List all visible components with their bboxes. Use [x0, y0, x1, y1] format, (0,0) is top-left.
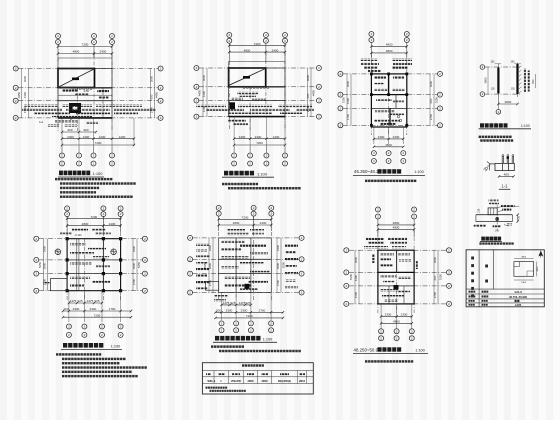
plan6 left ext lines+dims: [349, 250, 359, 304]
detail3 title: [481, 237, 501, 241]
plan1 stair room thick walls: [58, 69, 95, 88]
svg-text:1:100: 1:100: [111, 345, 121, 349]
svg-text:3600: 3600: [306, 74, 310, 81]
plan3 inner walls: [371, 74, 406, 125]
svg-text:7200: 7200: [95, 141, 102, 145]
plan2 left ext lines+dims: [198, 68, 208, 117]
svg-text:2400: 2400: [43, 245, 47, 252]
detail3 top labels: [489, 200, 500, 205]
plan1 inner wall row C: [58, 88, 112, 118]
plan3 axis row 3 left bubble: [338, 106, 343, 111]
plan5 left ext lines+dims: [203, 238, 213, 293]
svg-text:1800: 1800: [132, 262, 136, 269]
plan4 left ext lines+dims: [38, 239, 48, 291]
plan1 axis row 2 right bubble: [158, 85, 163, 90]
plan3 axis row 2 right bubble: [438, 92, 443, 97]
svg-text:600: 600: [150, 94, 154, 99]
plan1 note line 4: [60, 191, 96, 193]
svg-text:4450: 4450: [198, 89, 202, 96]
svg-text:1300: 1300: [23, 91, 27, 98]
plan6 axis row 2 right bubble: [447, 270, 452, 275]
plan2 inner wall row C: [229, 100, 285, 102]
table5 header cells: [206, 373, 305, 375]
svg-text:7200: 7200: [82, 43, 89, 47]
plan1 axis row 4 left bubble: [13, 115, 18, 120]
plan2 beam labels: [231, 98, 266, 101]
plan4 top dim 7200: [66, 215, 122, 220]
detail1 axis bubble 7: [480, 65, 485, 70]
plan1 beam labels mid: [62, 89, 109, 96]
plan4 axis row 3 right bubble: [142, 271, 147, 276]
plan4 axis row 3 left bubble: [34, 271, 39, 276]
detail3 tiny 240: [0, 0, 1, 1]
plan6 axis row 3 line: [349, 285, 447, 287]
plan1 grid verticals: [58, 54, 112, 132]
plan4 inner walls: [67, 239, 121, 291]
svg-text:2400: 2400: [276, 244, 280, 251]
svg-text:2400: 2400: [83, 135, 90, 139]
plan5 axis row 4 line: [193, 292, 300, 294]
svg-text:14/22: 14/22: [515, 303, 522, 307]
svg-text:1475: 1475: [87, 299, 94, 303]
svg-text:4450: 4450: [312, 89, 316, 96]
plan2 axis row 2 right bubble: [316, 84, 321, 89]
plan6 mid block: [394, 285, 399, 290]
plan3 axis row 3 line: [343, 107, 438, 109]
table5 header text: [242, 364, 264, 366]
plan3 left ext lines+dims: [342, 74, 352, 125]
svg-text:1200: 1200: [273, 135, 280, 139]
plan4 bottom axis bubble col 3: [100, 324, 105, 337]
plan1 bottom axis bubble col 4: [110, 146, 115, 166]
svg-text:2400: 2400: [255, 135, 262, 139]
svg-text:2700: 2700: [354, 291, 358, 298]
plan1 stair diagonal: [59, 69, 94, 87]
plan1 extension drops: [62, 118, 134, 146]
plan1 top axis bubble col 1: [56, 34, 61, 59]
plan6 axis row 4 left bubble: [344, 301, 349, 306]
plan4 axis row 4 line: [39, 290, 142, 292]
detail1 left vert dim: [484, 67, 488, 94]
plan5 dim row total: [214, 314, 284, 319]
titleblock key plan dims: [514, 257, 539, 284]
detail3 right leaders: [498, 205, 520, 212]
plan5 grid verticals: [219, 216, 272, 300]
plan3 right ext lines+dims: [429, 74, 439, 125]
plan2 axis row 1 line: [199, 67, 317, 69]
titleblock vertical divider 2: [493, 250, 495, 289]
plan5 notch lower-left: [206, 282, 219, 291]
plan2 axis row 3 right bubble: [316, 98, 321, 103]
plan3 dim row total 4800: [373, 143, 405, 148]
plan1 axis row 3 left bubble: [13, 98, 18, 103]
detail3 note: [479, 242, 513, 244]
svg-text:400: 400: [518, 216, 521, 221]
detail1 wall right hatch: [519, 66, 521, 93]
svg-text:150: 150: [510, 60, 515, 63]
plan3 axis row 4 line: [343, 124, 438, 126]
table5 data row: [208, 380, 306, 383]
detail1 mid 150 labels: [491, 89, 516, 91]
svg-text:3600: 3600: [354, 256, 358, 263]
svg-text:1:100: 1:100: [521, 124, 530, 128]
plan4 extension drops: [69, 291, 121, 322]
titleblock outer frame: [466, 250, 544, 307]
svg-text:5150: 5150: [349, 273, 353, 280]
plan2 plan outline: [229, 68, 285, 117]
plan2 bottom axis bubble col 3: [264, 146, 269, 166]
svg-text:48.250~50.9: 48.250~50.9: [354, 347, 379, 352]
plan5 bottom axis bubble col 3: [248, 321, 253, 333]
svg-text:2400: 2400: [393, 135, 400, 139]
plan5 axis row 4 right bubble: [299, 290, 304, 295]
plan3 grid verticals: [371, 53, 406, 135]
svg-text:4800: 4800: [385, 143, 392, 147]
svg-text:1200: 1200: [119, 135, 126, 139]
plan1 title: [59, 171, 103, 177]
svg-text:7200: 7200: [94, 313, 101, 317]
plan1 dim row 2400/2400/1200/1200: [61, 135, 135, 140]
plan2 stair diagonal: [229, 69, 265, 86]
svg-text:A-A: A-A: [39, 120, 44, 124]
plan6 top dim 4800 a: [377, 221, 416, 226]
plan1 top dim line 4800/2400: [57, 50, 113, 57]
svg-text:4450: 4450: [155, 91, 159, 98]
detail1 wall left: [497, 64, 499, 105]
plan4 plan outline: [67, 239, 121, 291]
svg-text:3600: 3600: [23, 75, 27, 82]
svg-text:600: 600: [306, 93, 310, 98]
titleblock key plan sketch: [514, 262, 534, 277]
titleblock row2 cells: [469, 295, 528, 299]
plan3 top dim 4800 b: [370, 49, 408, 54]
plan5 extension drops: [222, 293, 272, 321]
svg-text:2400: 2400: [132, 245, 136, 252]
svg-text:925: 925: [77, 299, 82, 303]
table5 outer frame: [202, 363, 313, 394]
plan1 axis row 4 right bubble: [158, 115, 163, 120]
plan6 axis row 3 left bubble: [344, 283, 349, 288]
section1-1 body: [495, 163, 514, 170]
svg-text:900: 900: [83, 128, 88, 132]
svg-text:4800: 4800: [73, 50, 80, 54]
plan2 dense band: [196, 105, 314, 114]
plan3 axis row 1 line: [343, 73, 438, 75]
detail3 title underline: [480, 240, 502, 242]
plan5 axis row 2 left bubble: [188, 257, 193, 262]
plan1 top axis bubble col 2: [92, 34, 97, 59]
plan4 right ext lines+dims: [132, 239, 141, 291]
detail1 bottom dim: [497, 100, 519, 105]
svg-text:5250: 5250: [137, 261, 141, 268]
plan5 axis row 4 left bubble: [188, 290, 193, 295]
plan1 axis row 3 line: [18, 100, 158, 102]
svg-text:1:100: 1:100: [263, 338, 273, 342]
plan6 plan outline: [378, 250, 414, 304]
plan2 embed plates row: [243, 87, 269, 89]
section1-1 label: [499, 184, 510, 190]
plan5 axis row 3 line: [193, 273, 300, 275]
plan5 top axis bubble col 3: [269, 205, 274, 231]
svg-text:900: 900: [67, 128, 72, 132]
plan2 dim row total: [233, 141, 286, 146]
detail1 title: [480, 123, 530, 128]
svg-text:600: 600: [429, 98, 433, 103]
plan4 dim row total: [62, 313, 132, 318]
plan3 bottom axis bubble col 1: [371, 151, 376, 164]
table5 footnotes: [206, 387, 246, 392]
svg-text:1700: 1700: [346, 113, 350, 120]
svg-text:1:100: 1:100: [415, 348, 425, 352]
titleblock row1 cells: [469, 290, 523, 294]
svg-text:4800: 4800: [233, 221, 240, 225]
plan6 axis row 4 right bubble: [447, 301, 452, 306]
svg-text:1475: 1475: [223, 301, 230, 305]
svg-text:7200: 7200: [256, 141, 263, 145]
plan4 interior labels: [70, 243, 110, 287]
plan2 cooling tower labels: [237, 92, 258, 97]
svg-text:2400: 2400: [67, 135, 74, 139]
svg-text:4800: 4800: [82, 222, 89, 226]
svg-text:3600: 3600: [150, 75, 154, 82]
svg-text:3600: 3600: [429, 80, 433, 87]
svg-text:2400: 2400: [109, 222, 116, 226]
svg-text:7200: 7200: [246, 314, 253, 318]
svg-text:Ø8@200(2): Ø8@200(2): [278, 380, 291, 383]
plan6 axis row 1 right bubble: [447, 248, 452, 253]
plan4 notch lower-left: [44, 279, 68, 291]
plan4 axis row 3 line: [39, 273, 142, 275]
plan2 note line 1: [222, 183, 258, 185]
plan3 beam labels above: [360, 59, 412, 73]
detail3 centerline: [496, 205, 498, 230]
plan2 shaft block: [229, 102, 235, 109]
detail1 axis line bottom: [485, 93, 521, 95]
plan2 inner wall row B: [229, 86, 285, 88]
svg-text:5250: 5250: [282, 261, 286, 268]
plan1 right vertical extension lines+dims: [150, 69, 159, 118]
plan5 bottom axis bubble col 4: [269, 321, 274, 333]
plan2 extension drops: [234, 117, 285, 146]
plan4 small dim row: [68, 299, 104, 304]
svg-text:2300: 2300: [73, 307, 80, 311]
svg-text:4800: 4800: [386, 49, 393, 53]
plan6 top axis bubble col 2: [412, 207, 417, 237]
detail1 note 2: [480, 139, 513, 141]
svg-text:600: 600: [433, 275, 437, 280]
detail1 wall right: [516, 63, 518, 98]
plan3 axis row 4 left bubble: [338, 123, 343, 128]
plan4 axis row 1 line: [39, 238, 142, 240]
plan4 axis row 4 right bubble: [142, 288, 147, 293]
plan3 top axis bubble col 1: [369, 32, 374, 59]
plan2 bottom axis bubble col 2: [248, 146, 253, 166]
svg-text:4800: 4800: [393, 221, 400, 225]
plan4 bottom axis bubble col 2: [82, 324, 87, 337]
plan2 axis row 1 right bubble: [316, 66, 321, 71]
plan2 bottom axis bubble col 4: [283, 146, 288, 166]
svg-text:-0.50: -0.50: [83, 89, 89, 93]
plan6 bottom axis bubble col 3: [409, 329, 414, 341]
titleblock north arrow: [538, 251, 543, 258]
svg-text:1800: 1800: [276, 262, 280, 269]
plan4 axis row 2 line: [39, 259, 142, 261]
plan4 axis row 1 left bubble: [34, 236, 39, 241]
plan5 right margin labels: [285, 245, 298, 289]
plan4 bottom axis bubble col 1: [66, 324, 71, 337]
svg-text:150: 150: [490, 60, 495, 63]
plan2 top dim 7200: [228, 42, 286, 47]
plan5 right ext lines+dims: [276, 238, 286, 293]
svg-text:3600: 3600: [202, 74, 206, 81]
plan2 axis row 4 right bubble: [316, 114, 321, 119]
plan6 dim row total: [380, 320, 413, 325]
svg-text:3600: 3600: [484, 77, 488, 83]
svg-text:7200: 7200: [242, 216, 249, 220]
svg-text:200: 200: [63, 307, 68, 311]
plan4 title underline: [61, 348, 122, 350]
plan6 axis row 2 left bubble: [344, 270, 349, 275]
svg-text:2300: 2300: [401, 313, 408, 317]
svg-text:250x450: 250x450: [231, 380, 241, 383]
svg-text:2700: 2700: [132, 278, 136, 285]
plan1 axis row 2 left bubble: [13, 85, 18, 90]
plan5 top axis bubble col 2: [251, 205, 256, 231]
svg-text:1300: 1300: [354, 274, 358, 281]
plan2 title underline: [222, 176, 274, 178]
plan1 dim row total 7200: [61, 141, 135, 146]
svg-text:5150: 5150: [342, 96, 346, 103]
plan2 dim row parts: [233, 135, 286, 140]
plan4 top axis bubble col 1: [65, 206, 70, 232]
detail1 right vert text: [523, 69, 529, 93]
titleblock mid column glyphs: [485, 265, 488, 283]
detail3 upstand: [488, 208, 497, 215]
svg-text:2700: 2700: [259, 309, 266, 313]
plan2 axis row 2 line: [199, 86, 317, 88]
plan5 top axis bubble col 1: [216, 205, 221, 231]
plan3 axis row 2 line: [343, 94, 438, 96]
plan1 note line 5: [60, 196, 133, 198]
svg-text:4800: 4800: [521, 257, 527, 259]
plan3 top axis bubble col 2: [404, 32, 409, 59]
plan3 dim row 2400/2400: [373, 135, 405, 140]
svg-text:2400: 2400: [100, 50, 107, 54]
detail1 right dim 600: [532, 74, 535, 88]
plan2 title: [224, 171, 268, 177]
plan1 axis row 4 line: [18, 117, 158, 119]
svg-text:2400: 2400: [272, 48, 279, 52]
svg-text:400: 400: [504, 173, 509, 177]
plan4 grid verticals: [67, 216, 121, 300]
svg-text:1200: 1200: [99, 135, 106, 139]
plan5 note 2: [219, 350, 301, 352]
titleblock left column vertical text: [471, 257, 474, 298]
plan5 interior labels: [221, 240, 270, 290]
plan3 bottom axis bubble col 2: [386, 151, 391, 164]
plan1 bottom axis bubble col 1: [60, 146, 65, 166]
svg-text:2400: 2400: [521, 282, 527, 284]
plan4 column blobs: [66, 237, 123, 292]
plan4 notes: [56, 353, 147, 377]
detail1 axis line top: [485, 66, 521, 68]
plan5 axis row 3 right bubble: [299, 271, 304, 276]
plan6 axis row 3 right bubble: [447, 283, 452, 288]
svg-text:4.21-9: 4.21-9: [514, 290, 522, 294]
detail3 beam: [476, 215, 513, 222]
plan1 top axis bubble col 3: [110, 34, 115, 59]
svg-text:2700: 2700: [429, 113, 433, 120]
plan3 axis row 1 right bubble: [438, 71, 443, 76]
svg-text:2700: 2700: [433, 291, 437, 298]
plan3 axis row 3 right bubble: [438, 106, 443, 111]
plan6 axis row 4 line: [349, 303, 447, 305]
plan4 top axis bubble col 3: [118, 206, 123, 232]
svg-text:1475: 1475: [70, 299, 77, 303]
plan6 top axis bubble col 1: [375, 207, 380, 237]
svg-text:4800: 4800: [393, 320, 400, 324]
plan3 axis row 2 left bubble: [338, 92, 343, 97]
plan5 title underline: [213, 341, 277, 343]
detail1 axis bubble 1: [480, 92, 485, 97]
svg-text:4450: 4450: [17, 91, 21, 98]
plan6 bottom axis bubble col 1: [379, 329, 384, 341]
plan1 axis row 1 right bubble: [158, 66, 163, 71]
plan5 shaft block: [245, 284, 250, 289]
plan1 title underline: [58, 176, 104, 178]
plan3 note line: [365, 180, 416, 182]
plan3 title underline: [353, 174, 425, 176]
plan2 stair room thick walls: [229, 68, 266, 87]
plan1 dense dim/label band: [22, 105, 156, 117]
svg-text:46.750~50.900: 46.750~50.900: [509, 295, 528, 299]
svg-text:1-1: 1-1: [501, 184, 508, 189]
section1-1 left bracket: [484, 162, 495, 172]
plan2 axis row 4 left bubble: [194, 114, 199, 119]
plan6 top dim 4800 b: [377, 226, 416, 231]
svg-text:1300: 1300: [346, 97, 350, 104]
section1-1 rebar hooks: [502, 155, 514, 164]
plan4 top axis bubble col 2: [101, 206, 106, 232]
plan6 axis row 1 line: [349, 249, 447, 251]
detail3 lower labels: [474, 223, 512, 232]
svg-text:2Ø18: 2Ø18: [247, 380, 254, 383]
plan6 edge vertical labels: [372, 254, 418, 269]
plan5 axis row 1 left bubble: [188, 235, 193, 240]
plan5 small dim row: [220, 301, 252, 306]
plan1 small dim row: [61, 128, 97, 133]
plan3 title: [354, 169, 424, 174]
svg-text:2300: 2300: [385, 313, 392, 317]
plan6 interior labels: [380, 253, 411, 302]
plan3 interior labels: [374, 77, 405, 126]
svg-text:925: 925: [230, 301, 235, 305]
plan5 axis row 2 line: [193, 258, 300, 260]
titleblock row3 cells: [469, 300, 520, 302]
svg-text:2700: 2700: [276, 279, 280, 286]
svg-text:2400: 2400: [378, 135, 385, 139]
plan4 axis row 1 right bubble: [142, 236, 147, 241]
svg-text:3600: 3600: [346, 80, 350, 87]
plan6 axis row 1 left bubble: [344, 248, 349, 253]
plan4 top dim 4800/2400: [66, 222, 122, 227]
svg-text:150: 150: [477, 208, 480, 213]
plan1 plan right/lower thin outline: [58, 69, 112, 118]
plan5 axis row 1 right bubble: [299, 235, 304, 240]
section1-1 dim 400: [498, 173, 515, 178]
svg-text:3600: 3600: [433, 256, 437, 263]
plan3 bottom axis bubble col 3: [401, 151, 406, 164]
